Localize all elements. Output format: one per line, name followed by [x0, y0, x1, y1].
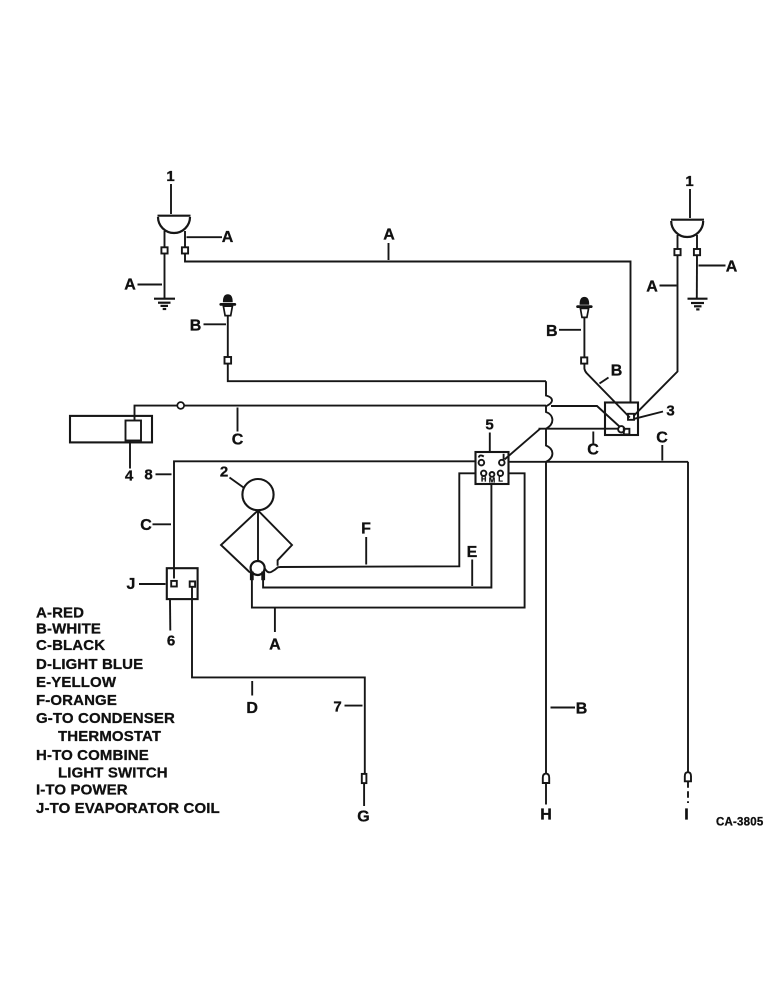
wire E motor to switch 5 bottom-center [263, 484, 491, 588]
connector B left (sender/bulb symbol) [221, 295, 235, 316]
J block left terminal [171, 581, 177, 587]
svg-text:D: D [246, 700, 258, 717]
svg-text:CA-3805: CA-3805 [716, 817, 764, 829]
svg-text:1: 1 [685, 173, 693, 190]
wire A to ground (left lamp) [164, 254, 166, 299]
wire from switch 5 top-right diagonal to harness junction [505, 429, 541, 460]
wire D from J block down and right [192, 587, 365, 774]
switch 5 terminal L, bottom-right [498, 471, 503, 476]
terminal circle in connector 3 (C wire) [618, 426, 624, 432]
label C (left, under node wire) with tick [237, 408, 239, 432]
connector block 3 [605, 403, 638, 436]
terminal block J (item 6) [167, 568, 198, 599]
svg-text:F: F [361, 521, 371, 538]
svg-text:A: A [124, 277, 136, 294]
svg-text:B: B [611, 363, 623, 380]
wire C horizontal from box 4 to harness [135, 406, 547, 421]
svg-text:A: A [726, 259, 738, 276]
terminal square in connector 3 (A wires) [628, 414, 634, 420]
wire A stub + label (left lamp output) [187, 236, 223, 238]
wire B down and right to harness [228, 364, 546, 382]
svg-text:H: H [540, 807, 552, 824]
svg-text:B: B [546, 323, 558, 340]
svg-text:J-TO EVAPORATOR COIL: J-TO EVAPORATOR COIL [36, 800, 220, 817]
svg-text:J: J [127, 576, 136, 593]
wire A motor to switch 5 bottom-right [252, 473, 525, 607]
svg-text:M: M [489, 476, 495, 485]
switch 5 terminal M, bottom-center [490, 472, 495, 477]
motor 2 plug terminal bars [250, 572, 254, 581]
terminal square, left lamp left [161, 247, 167, 253]
wire C big loop: top edge into switch 5 [174, 461, 476, 578]
wire B from right connector down [583, 317, 585, 357]
svg-text:E: E [467, 544, 478, 561]
switch 5 (blower switch block) [476, 452, 509, 484]
terminal square in connector 3 (lower) [624, 429, 630, 435]
terminal square, right lamp right [694, 249, 700, 255]
svg-text:I: I [684, 807, 688, 824]
wire F motor to switch 5 bottom-left [280, 473, 476, 567]
wire A stub + label (right lamp) [699, 265, 726, 267]
wire to H [545, 783, 547, 805]
svg-text:E-YELLOW: E-YELLOW [36, 674, 117, 691]
svg-text:H: H [481, 475, 486, 484]
svg-text:D-LIGHT BLUE: D-LIGHT BLUE [36, 656, 143, 673]
svg-text:C: C [656, 430, 668, 447]
motor 2 plug (dome) [251, 561, 265, 575]
svg-text:LIGHT SWITCH: LIGHT SWITCH [58, 765, 168, 782]
wire B from connector down [227, 316, 229, 357]
svg-text:A: A [646, 279, 658, 296]
svg-text:C-BLACK: C-BLACK [36, 637, 105, 654]
svg-text:A: A [269, 637, 281, 654]
svg-text:3: 3 [666, 403, 674, 420]
wire C from harness to connector 3 (lower) [539, 428, 619, 430]
terminal square on wire B right [581, 357, 587, 363]
svg-text:2: 2 [220, 464, 228, 481]
terminal square, left lamp right [182, 247, 188, 253]
terminal square on wire B left [225, 357, 232, 364]
wire A from right lamp down then diagonal to connector 3 [634, 255, 678, 416]
wire, left lamp left terminal lead [164, 231, 166, 247]
switch 5 terminal, top-right [503, 454, 505, 460]
svg-text:8: 8 [144, 467, 152, 484]
motor 2 (blower motor circle) [242, 479, 273, 510]
wire to G [363, 783, 365, 806]
label B (harness down wire) with dash [551, 707, 576, 709]
switch 5 terminal, top-left [479, 455, 484, 457]
svg-text:1: 1 [166, 168, 174, 185]
motor 2 mount diamond [221, 510, 292, 572]
svg-text:A-RED: A-RED [36, 605, 84, 622]
wire F hook from motor plug [265, 567, 280, 572]
wire C from switch 5 right side to wire I corner [509, 461, 689, 463]
ground (left lamp) [154, 299, 175, 309]
svg-text:5: 5 [485, 417, 493, 434]
svg-text:7: 7 [333, 699, 341, 716]
terminal square, right lamp left [674, 249, 680, 255]
svg-text:B: B [576, 701, 588, 718]
svg-text:4: 4 [125, 468, 134, 485]
wire 6 from J block [169, 599, 171, 630]
label D with tick [251, 681, 253, 696]
wire B diagonal to connector 3 [584, 364, 629, 418]
wire A top horizontal run [185, 231, 631, 403]
svg-text:B-WHITE: B-WHITE [36, 621, 101, 638]
wire lead to right lamp [689, 189, 691, 218]
wire, right lamp left terminal lead [677, 235, 679, 249]
junction node on wire C [177, 402, 184, 409]
svg-text:A: A [383, 227, 395, 244]
svg-text:B: B [190, 318, 202, 335]
connector I (bullet terminal) [685, 772, 691, 781]
svg-text:G: G [357, 809, 369, 826]
svg-text:C: C [232, 432, 244, 449]
lamp 1 left (headlamp dome) [158, 216, 191, 233]
box 4 (resistor/regulator) outer [70, 416, 152, 443]
harness loom (vertical with loops) carrying wire B down [546, 381, 552, 773]
box 4 inner element [126, 421, 142, 441]
svg-text:I-TO POWER: I-TO POWER [36, 782, 128, 799]
svg-text:L: L [498, 475, 503, 484]
wire I vertical [687, 462, 689, 772]
svg-text:C: C [587, 442, 599, 459]
svg-text:A: A [222, 229, 234, 246]
wire lead to left lamp [170, 184, 172, 214]
wire, right lamp right terminal to ground [696, 235, 698, 249]
svg-text:THERMOSTAT: THERMOSTAT [58, 728, 161, 745]
svg-text:C: C [140, 517, 152, 534]
wire to I [687, 781, 689, 803]
connector H (bullet terminal) [543, 774, 549, 783]
connector B right (sender/bulb symbol) [578, 297, 592, 317]
switch 5 terminal H, bottom-left [481, 471, 486, 476]
motor 2 shaft line [257, 510, 259, 561]
svg-text:H-TO COMBINE: H-TO COMBINE [36, 747, 149, 764]
ground (right lamp) [688, 299, 708, 310]
svg-text:F-ORANGE: F-ORANGE [36, 692, 117, 709]
svg-text:6: 6 [167, 633, 175, 650]
label A (bottom) with tick [274, 609, 276, 633]
svg-text:G-TO CONDENSER: G-TO CONDENSER [36, 710, 175, 727]
legend wire color key [36, 605, 220, 818]
connector on wire G (sleeve) [362, 774, 367, 783]
lamp 1 right (headlamp dome) [671, 220, 704, 237]
wire from box 4 to label 4 [129, 441, 131, 469]
J block right terminal [190, 581, 195, 586]
wire C from harness to connector 3 (upper, diagonal) [551, 406, 620, 427]
